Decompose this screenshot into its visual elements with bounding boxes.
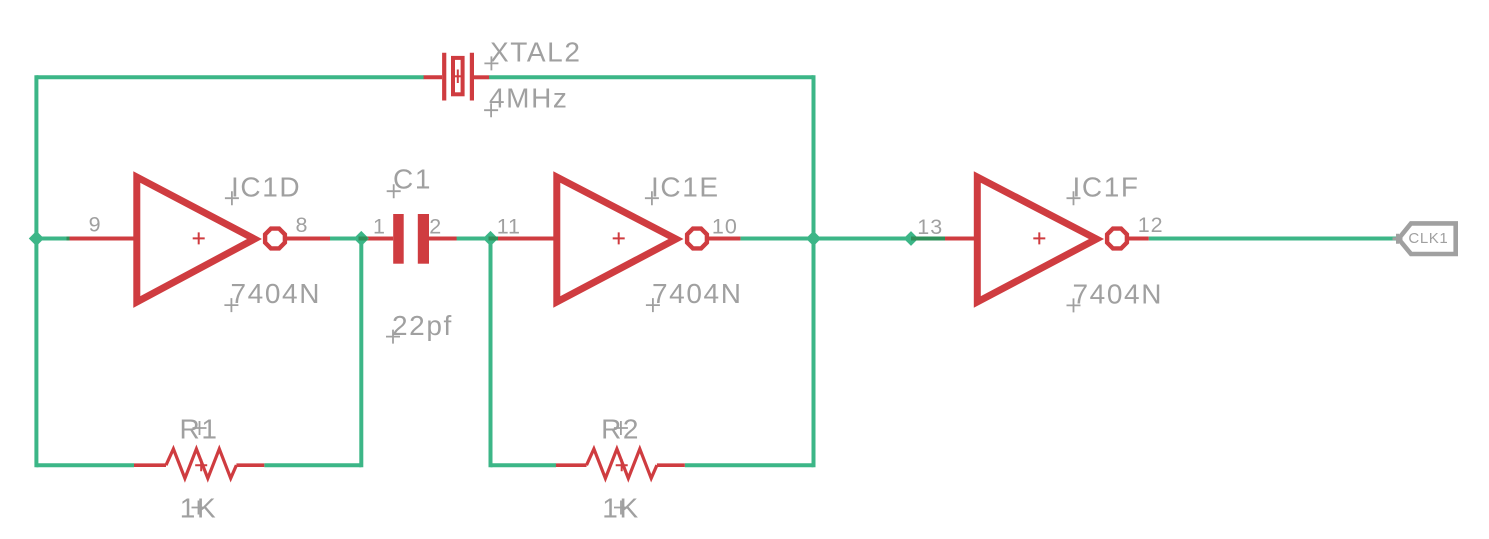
wire top horizontal left (net to XTAL2) xyxy=(36,75,424,79)
wire node C riser to R2 xyxy=(491,463,557,467)
wire R2 to right riser xyxy=(685,463,814,467)
origin cross C1 xyxy=(387,184,401,198)
wire overlap dark B xyxy=(359,237,368,241)
svg-text:7404N: 7404N xyxy=(231,278,322,309)
svg-text:7404N: 7404N xyxy=(652,278,743,309)
svg-text:10: 10 xyxy=(712,215,738,239)
junction node C xyxy=(483,231,498,246)
wire right vertical riser xyxy=(812,75,816,467)
svg-text:8: 8 xyxy=(296,213,309,237)
junction node E xyxy=(904,231,919,246)
svg-text:IC1F: IC1F xyxy=(1073,171,1140,202)
svg-text:IC1D: IC1D xyxy=(231,171,301,202)
bubble IC1D xyxy=(265,229,285,249)
origin cross R1 xyxy=(193,421,207,435)
wire vertical node B down xyxy=(359,239,363,468)
wire IC1F output to CLK1 xyxy=(1149,237,1397,241)
wire IC1E output to IC1F input xyxy=(740,237,945,241)
junction node B xyxy=(354,231,369,246)
triangle IC1D xyxy=(137,177,255,302)
op-amp U1: inverter IC1D xyxy=(68,177,330,302)
op-amp U3: inverter IC1F xyxy=(940,177,1149,302)
triangle IC1E xyxy=(557,177,676,302)
wire overlap dark E xyxy=(911,237,945,241)
svg-text:7404N: 7404N xyxy=(1073,278,1164,309)
op-amp U2: inverter IC1E xyxy=(494,177,740,302)
origin cross IC1F xyxy=(1067,191,1081,205)
C1 right lead xyxy=(429,237,457,241)
origin + IC1F xyxy=(1033,232,1045,244)
resistor R1 xyxy=(134,449,264,478)
wire IC1D output to node B xyxy=(330,237,361,241)
bubble IC1E xyxy=(687,229,707,249)
origin cross 7404N (IC1E) xyxy=(646,298,660,312)
svg-text:12: 12 xyxy=(1138,213,1164,237)
origin cross 4MHz xyxy=(484,103,498,117)
svg-text:22pf: 22pf xyxy=(392,310,453,341)
svg-text:CLK1: CLK1 xyxy=(1408,230,1448,247)
origin + IC1D xyxy=(193,232,205,244)
origin cross XTAL2 xyxy=(484,56,498,70)
wire left vertical riser xyxy=(34,75,38,467)
wire R1 to node B riser xyxy=(264,463,361,467)
wire overlap dark A xyxy=(67,237,70,241)
origin cross 1K (R2) xyxy=(614,501,628,515)
pin 11 lead xyxy=(494,237,557,241)
wire bottom left (node to R1) xyxy=(36,463,134,467)
pin 8 lead xyxy=(287,237,331,241)
capacitor C1 xyxy=(393,214,429,264)
origin cross 7404N (IC1F) xyxy=(1067,298,1081,312)
crystal XTAL2 xyxy=(424,53,490,101)
wire C1 to node C xyxy=(457,237,491,241)
svg-text:11: 11 xyxy=(497,215,521,239)
wire overlap dark C xyxy=(489,237,499,241)
origin cross 1K (R1) xyxy=(192,501,206,515)
svg-text:4MHz: 4MHz xyxy=(489,83,569,114)
wire mid left stub at node A xyxy=(36,237,68,241)
origin cross CLK1 xyxy=(1393,234,1403,244)
C1 left lead xyxy=(362,237,393,241)
svg-text:C1: C1 xyxy=(393,164,432,195)
svg-text:9: 9 xyxy=(89,213,102,237)
origin cross IC1E xyxy=(645,191,659,205)
triangle IC1F xyxy=(977,177,1096,302)
svg-text:IC1E: IC1E xyxy=(651,171,720,202)
origin cross IC1D xyxy=(225,191,239,205)
junction node A xyxy=(29,231,44,246)
origin cross 22pf xyxy=(386,330,400,344)
net flag CLK1 xyxy=(1399,223,1456,254)
pin 10 lead xyxy=(708,237,740,241)
junction node D xyxy=(806,231,821,246)
origin cross 7404N (IC1D) xyxy=(224,298,238,312)
wire top horizontal right (XTAL2 to right riser) xyxy=(489,75,814,79)
resistor R2 xyxy=(556,449,685,478)
svg-text:13: 13 xyxy=(917,215,943,239)
svg-text:1: 1 xyxy=(373,214,386,238)
bubble IC1F xyxy=(1107,229,1127,249)
pin 13 lead xyxy=(940,237,977,241)
wire vertical node C down xyxy=(489,239,493,468)
pin 12 lead xyxy=(1129,237,1149,241)
svg-text:XTAL2: XTAL2 xyxy=(490,37,582,68)
origin cross R2 xyxy=(614,421,628,435)
svg-text:2: 2 xyxy=(429,214,442,238)
pin 9 lead xyxy=(68,237,137,241)
origin + IC1E xyxy=(613,232,625,244)
